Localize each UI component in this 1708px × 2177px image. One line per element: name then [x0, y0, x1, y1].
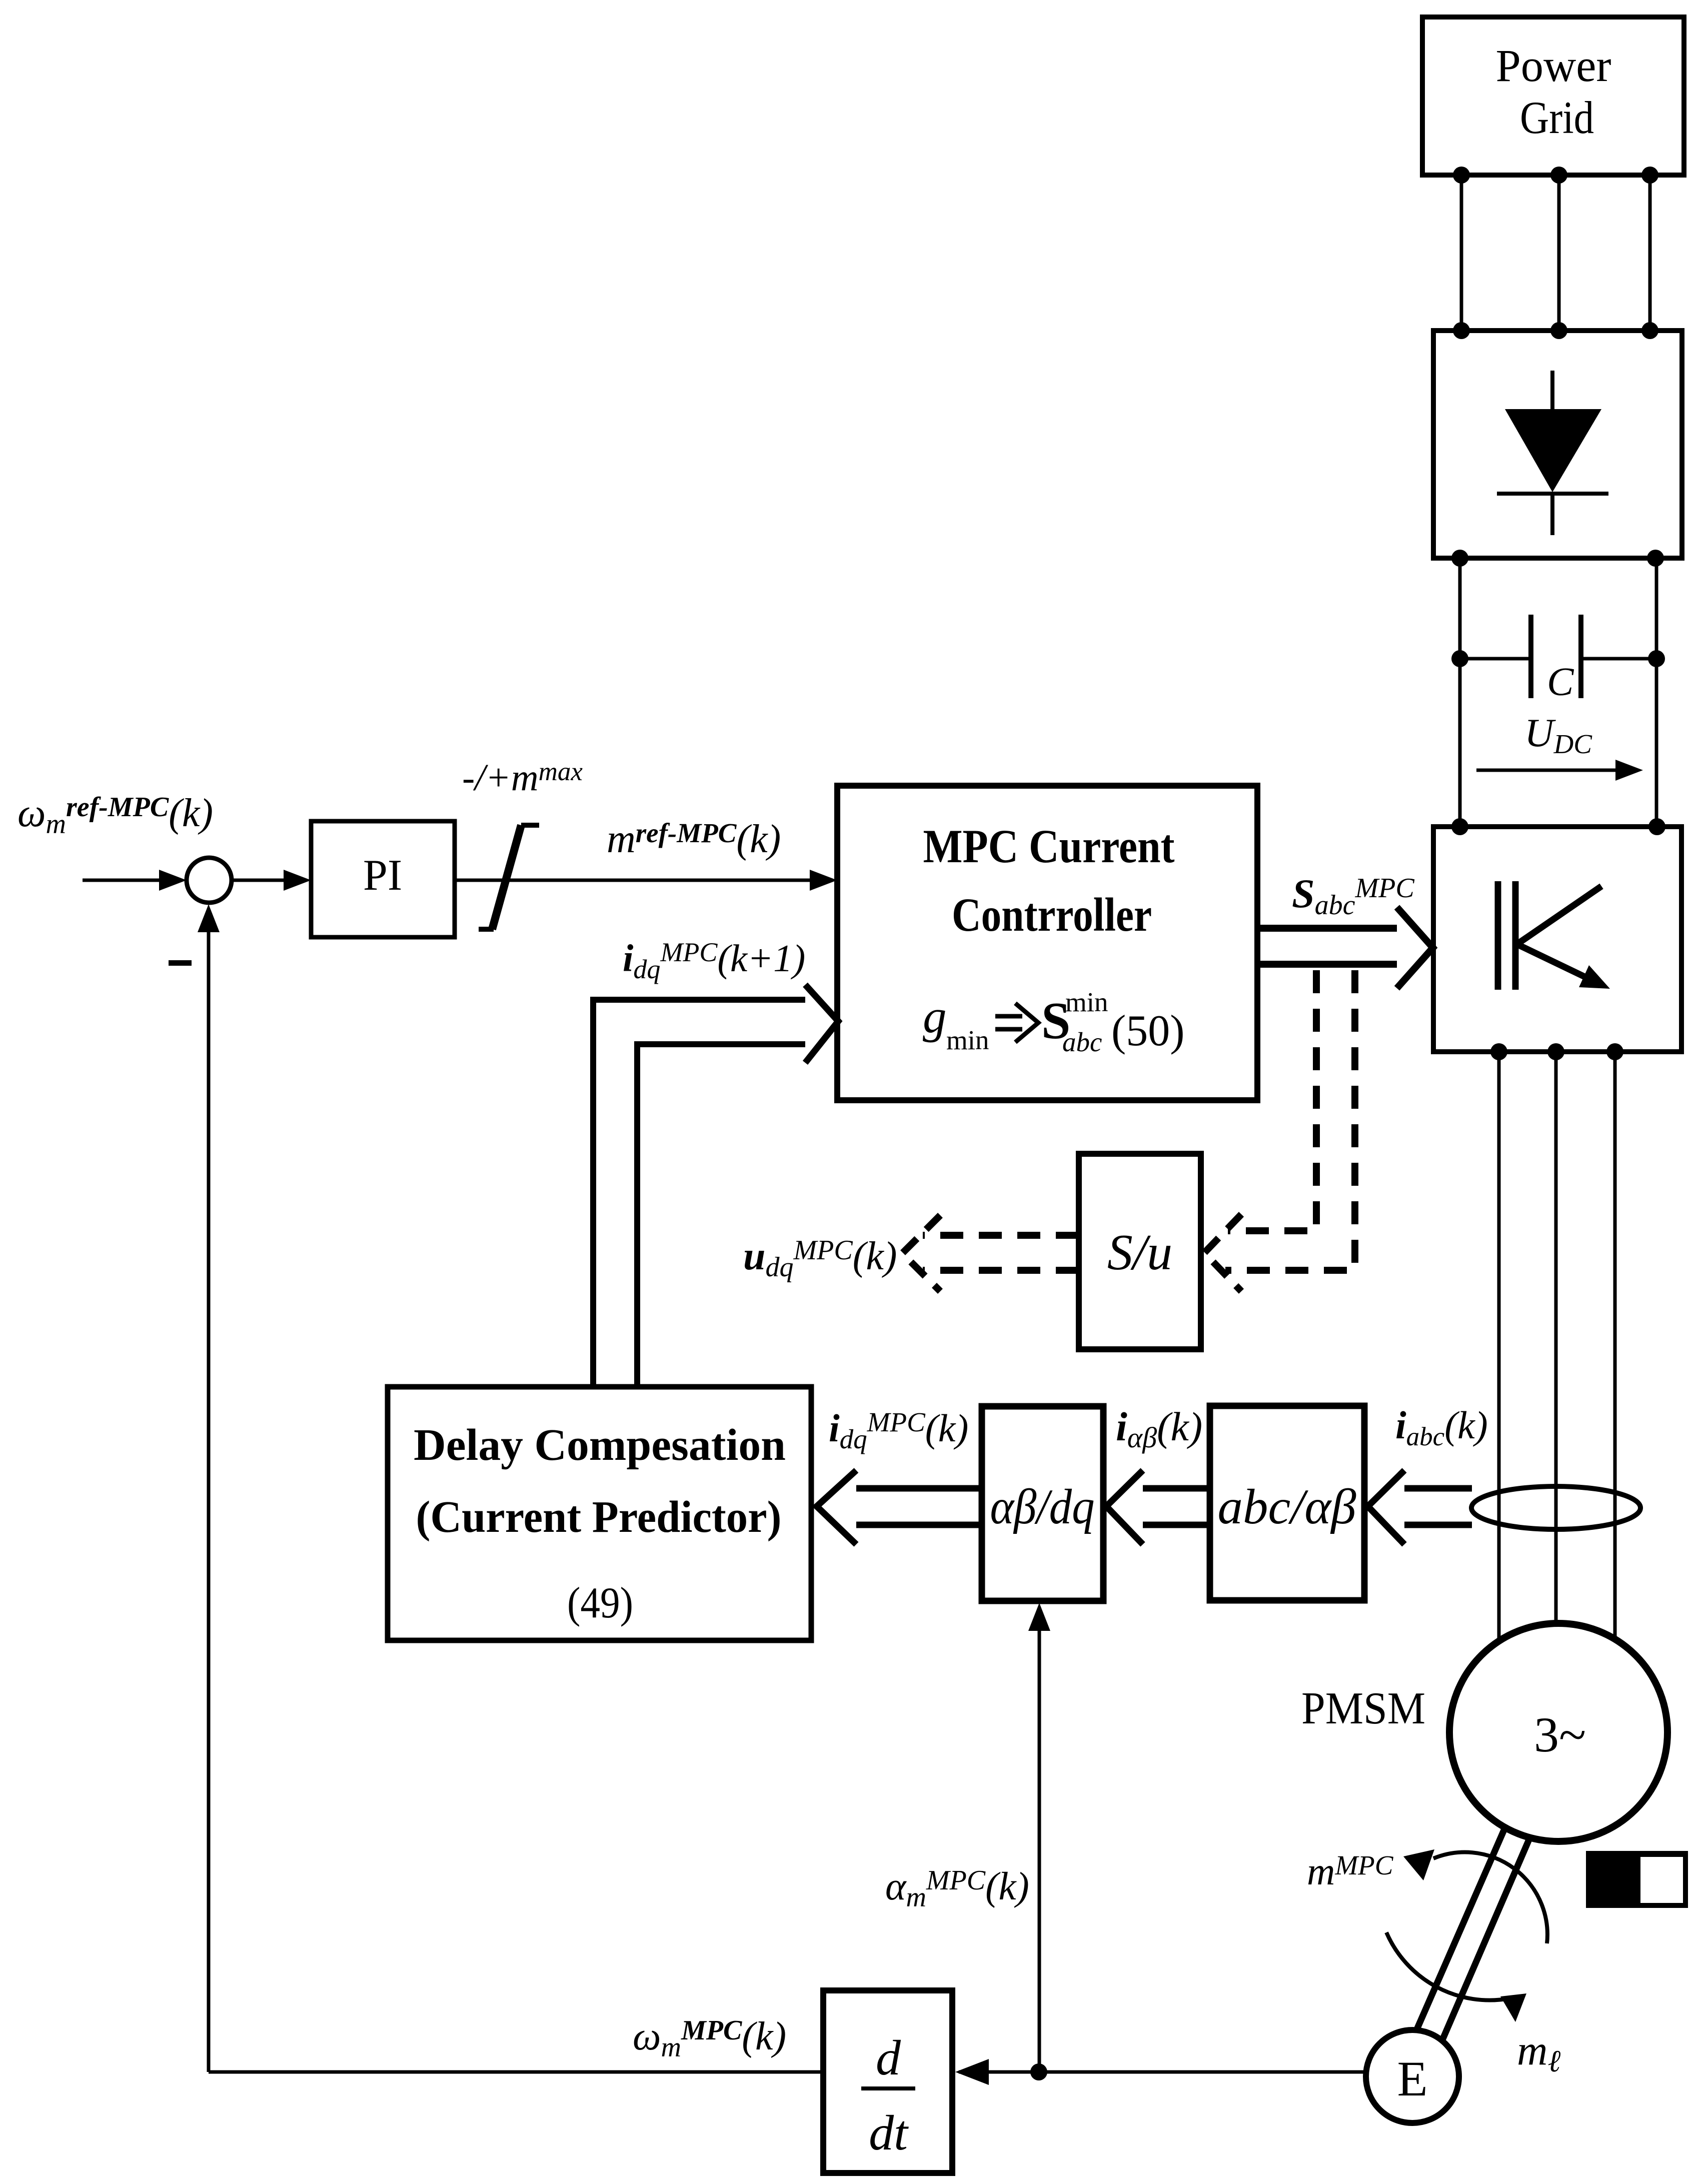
shaft: [1416, 1824, 1531, 2041]
dashed wire S left branch: [1228, 970, 1316, 1231]
svg-text:MPC Current: MPC Current: [923, 820, 1175, 873]
saturation limiter: [479, 825, 539, 929]
capacitor C: [1460, 615, 1656, 698]
torque arrow mMPC: [1403, 1849, 1547, 1943]
label minus: [169, 960, 192, 966]
PI controller box: [311, 821, 455, 937]
dashed wire S right branch: [1225, 970, 1355, 1270]
arrowhead into summing junction: [198, 904, 220, 932]
svg-text:(Current Predictor): (Current Predictor): [416, 1492, 782, 1542]
i_dq(k) bus arrow into delay box: [817, 1470, 982, 1544]
junction dots inverter output: [1490, 1043, 1623, 1060]
wire alpha_m up to ab/dq: [1038, 1630, 1041, 2072]
wire phase a inverter-motor: [1497, 1052, 1501, 1645]
wire grid phase a: [1460, 175, 1463, 331]
wire phase b inverter-motor: [1554, 1052, 1558, 1626]
svg-text:αβ/dq: αβ/dq: [990, 1479, 1095, 1534]
diode D1: [1497, 371, 1608, 535]
svg-text:abc/αβ: abc/αβ: [1218, 1479, 1356, 1534]
svg-text:min: min: [1065, 987, 1108, 1017]
wire DC bus right rail: [1655, 558, 1658, 827]
encoder E: [1366, 2030, 1459, 2123]
svg-text:E: E: [1397, 2051, 1427, 2106]
alpha-beta/dq box: [982, 1406, 1103, 1601]
arrowhead into MPC controller: [810, 870, 837, 891]
arrowhead into PI: [284, 870, 311, 891]
d/dt box: [823, 1990, 952, 2173]
wire grid phase c: [1648, 175, 1652, 331]
svg-text:abc: abc: [1062, 1027, 1102, 1057]
power grid box: [1422, 17, 1684, 175]
load torque arrow ml: [1386, 1932, 1526, 2022]
svg-text:d: d: [876, 2030, 901, 2085]
svg-text:Delay Compesation: Delay Compesation: [414, 1420, 786, 1470]
svg-text:C: C: [1547, 660, 1574, 704]
svg-text:Grid: Grid: [1520, 92, 1594, 143]
wire input reference: [83, 879, 165, 882]
svg-text:Power: Power: [1496, 40, 1611, 91]
rectifier box: [1433, 331, 1682, 558]
junction dots rectifier output: [1451, 550, 1664, 567]
motor PMSM 3-phase: [1449, 1623, 1667, 1841]
dashed arrowhead u_dq: [902, 1215, 940, 1291]
junction dots rectifier input: [1453, 322, 1658, 339]
wire feedback left vertical: [207, 931, 211, 2072]
IGBT symbol: [1498, 881, 1610, 990]
arrow UDC: [1476, 760, 1643, 781]
arrowhead into d/dt: [955, 2059, 989, 2085]
svg-text:3~: 3~: [1534, 1707, 1586, 1762]
svg-text:(49): (49): [567, 1579, 633, 1627]
formula g_min implies S_abc min (50): [923, 987, 1185, 1057]
abc/alpha-beta box: [1210, 1406, 1364, 1600]
current sensor: [1471, 1486, 1640, 1529]
svg-text:dt: dt: [869, 2105, 909, 2160]
arrowhead input: [159, 870, 187, 891]
wire PI to MPC: [453, 879, 816, 882]
summing junction: [187, 858, 232, 903]
wire grid phase b: [1557, 175, 1561, 331]
svg-text:PMSM: PMSM: [1301, 1683, 1425, 1733]
delay compensation box: [388, 1387, 811, 1640]
i_dq(k+1) bus upper branch: [593, 1000, 816, 1387]
svg-text:g: g: [923, 990, 947, 1043]
svg-text:min: min: [946, 1025, 989, 1055]
dashed arrowhead into S/u: [1204, 1214, 1241, 1291]
wire phase c inverter-motor: [1613, 1052, 1617, 1643]
S/u box: [1079, 1154, 1201, 1349]
wire DC bus left rail: [1458, 558, 1462, 827]
open arrowhead i_dq(k+1) into MPC: [805, 985, 838, 1063]
MPC current controller box: [837, 786, 1257, 1100]
wire encoder to d/dt: [959, 2070, 1368, 2074]
svg-text:PI: PI: [363, 851, 402, 900]
svg-text:Contrroller: Contrroller: [952, 888, 1152, 941]
inverter box: [1433, 827, 1681, 1052]
arrowhead alpha_m: [1028, 1603, 1050, 1631]
i_abc bus arrow from sensor: [1368, 1470, 1472, 1544]
S_abc bus arrow to inverter: [1256, 907, 1433, 988]
wire sum to PI: [232, 879, 289, 882]
junction dots capacitor: [1451, 650, 1665, 667]
svg-text:(50): (50): [1111, 1007, 1185, 1055]
i_dq(k+1) bus lower branch: [637, 1044, 818, 1387]
wire feedback bottom: [209, 2070, 823, 2074]
junction dot alpha branch: [1030, 2063, 1047, 2080]
load block: [1586, 1851, 1688, 1908]
svg-text:S/u: S/u: [1107, 1224, 1172, 1281]
i_alphabeta bus arrow: [1106, 1470, 1210, 1544]
junction dots grid output: [1453, 167, 1658, 184]
dashed wire u_dq output: [923, 1235, 1079, 1270]
junction dots inverter input: [1451, 818, 1665, 835]
